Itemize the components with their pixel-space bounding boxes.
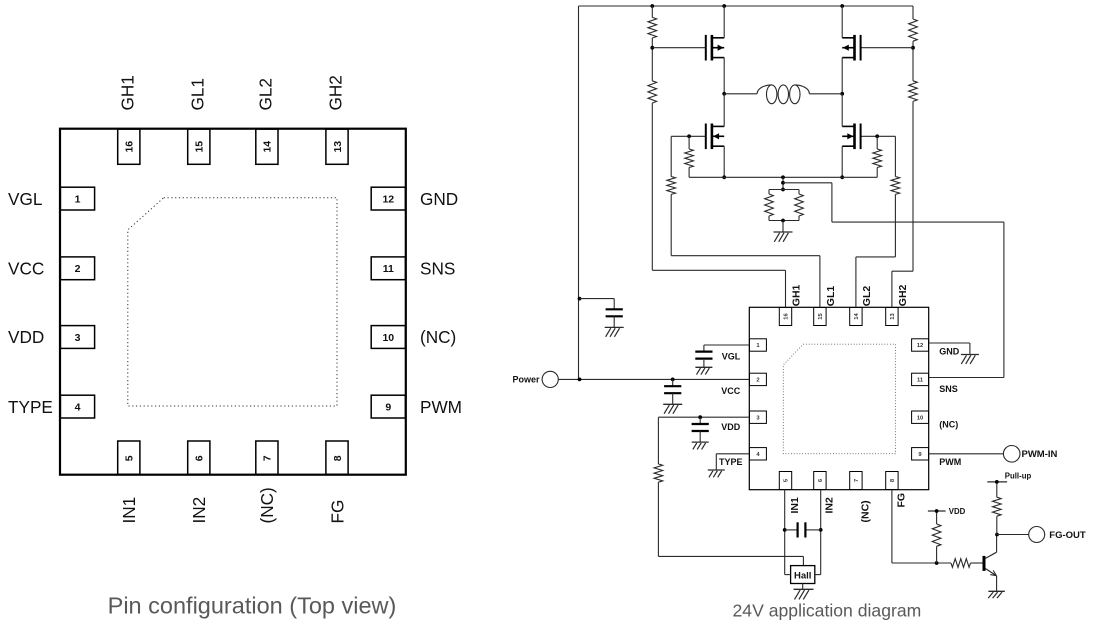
svg-text:4: 4 bbox=[756, 452, 760, 458]
svg-text:10: 10 bbox=[917, 415, 923, 421]
svg-text:Pin configuration (Top view): Pin configuration (Top view) bbox=[108, 593, 397, 619]
svg-text:PWM: PWM bbox=[939, 457, 961, 467]
svg-text:GH1: GH1 bbox=[117, 75, 137, 110]
svg-text:1: 1 bbox=[75, 193, 81, 205]
svg-text:(NC): (NC) bbox=[420, 327, 456, 347]
svg-text:15: 15 bbox=[818, 313, 824, 320]
svg-text:GL2: GL2 bbox=[255, 78, 275, 111]
svg-text:12: 12 bbox=[382, 193, 394, 205]
svg-text:FG: FG bbox=[896, 493, 908, 508]
svg-text:(NC): (NC) bbox=[257, 487, 277, 523]
svg-text:8: 8 bbox=[890, 478, 896, 482]
svg-text:5: 5 bbox=[784, 478, 790, 482]
svg-text:GL2: GL2 bbox=[861, 286, 873, 307]
svg-text:IN2: IN2 bbox=[824, 497, 836, 514]
svg-text:Pull-up: Pull-up bbox=[1005, 471, 1032, 480]
svg-text:2: 2 bbox=[75, 263, 81, 275]
svg-text:15: 15 bbox=[194, 141, 206, 153]
svg-text:6: 6 bbox=[818, 478, 824, 482]
svg-text:IN1: IN1 bbox=[789, 497, 801, 514]
svg-text:FG-OUT: FG-OUT bbox=[1049, 530, 1086, 541]
svg-text:14: 14 bbox=[854, 313, 860, 320]
svg-text:3: 3 bbox=[75, 332, 81, 344]
svg-text:24V application diagram: 24V application diagram bbox=[733, 601, 922, 621]
svg-text:VGL: VGL bbox=[8, 189, 42, 209]
svg-text:PWM: PWM bbox=[420, 397, 462, 417]
svg-text:IN2: IN2 bbox=[189, 497, 209, 524]
svg-text:VCC: VCC bbox=[8, 259, 44, 279]
svg-text:11: 11 bbox=[917, 378, 924, 384]
svg-text:9: 9 bbox=[385, 401, 391, 413]
svg-text:VDD: VDD bbox=[8, 327, 44, 347]
svg-text:IN1: IN1 bbox=[119, 497, 139, 524]
svg-text:FG: FG bbox=[327, 500, 347, 524]
svg-text:16: 16 bbox=[784, 313, 790, 320]
svg-text:13: 13 bbox=[332, 141, 344, 153]
svg-text:(NC): (NC) bbox=[939, 419, 958, 429]
svg-text:5: 5 bbox=[124, 455, 136, 461]
svg-text:VCC: VCC bbox=[721, 386, 741, 396]
svg-text:SNS: SNS bbox=[939, 384, 958, 394]
svg-text:8: 8 bbox=[332, 455, 344, 461]
svg-text:SNS: SNS bbox=[420, 259, 455, 279]
svg-text:6: 6 bbox=[194, 455, 206, 461]
svg-text:(NC): (NC) bbox=[860, 500, 872, 522]
svg-text:Power: Power bbox=[512, 375, 540, 385]
svg-text:GH1: GH1 bbox=[791, 284, 803, 306]
svg-text:10: 10 bbox=[382, 332, 394, 344]
svg-text:7: 7 bbox=[854, 479, 860, 482]
svg-text:GH2: GH2 bbox=[326, 75, 346, 110]
svg-text:TYPE: TYPE bbox=[8, 397, 53, 417]
svg-text:GND: GND bbox=[939, 346, 960, 356]
svg-text:GH2: GH2 bbox=[897, 284, 909, 306]
svg-text:GND: GND bbox=[420, 189, 458, 209]
svg-text:VDD: VDD bbox=[949, 507, 966, 516]
svg-text:11: 11 bbox=[383, 263, 394, 275]
svg-text:14: 14 bbox=[262, 141, 274, 153]
svg-text:VDD: VDD bbox=[721, 422, 741, 432]
svg-text:1: 1 bbox=[756, 343, 760, 349]
svg-text:4: 4 bbox=[75, 401, 81, 413]
svg-text:3: 3 bbox=[756, 415, 760, 421]
svg-text:13: 13 bbox=[890, 313, 896, 320]
svg-text:PWM-IN: PWM-IN bbox=[1022, 449, 1058, 460]
svg-text:12: 12 bbox=[917, 343, 923, 349]
svg-text:9: 9 bbox=[918, 452, 922, 458]
svg-text:GL1: GL1 bbox=[825, 286, 837, 307]
svg-text:2: 2 bbox=[756, 378, 759, 384]
svg-text:TYPE: TYPE bbox=[719, 457, 743, 467]
svg-text:16: 16 bbox=[124, 141, 136, 153]
svg-text:VGL: VGL bbox=[722, 352, 741, 362]
svg-text:7: 7 bbox=[262, 455, 274, 461]
svg-text:Hall: Hall bbox=[794, 570, 811, 581]
svg-text:GL1: GL1 bbox=[187, 78, 207, 111]
